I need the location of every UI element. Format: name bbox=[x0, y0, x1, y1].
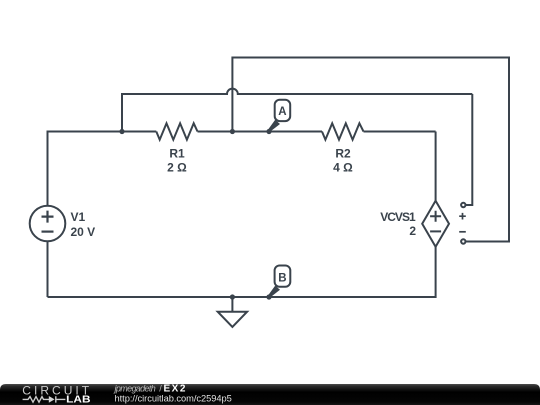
footer bar bbox=[0, 384, 540, 405]
svg-text:http://circuitlab.com/c2594p5: http://circuitlab.com/c2594p5 bbox=[115, 393, 232, 403]
svg-text:R1: R1 bbox=[169, 146, 185, 160]
flag A pointer bbox=[268, 120, 280, 132]
terminal minus sign bbox=[459, 231, 466, 233]
svg-text:LAB: LAB bbox=[66, 394, 90, 405]
flag B box bbox=[275, 266, 291, 287]
wire right vertical (VCVS1 top lead) bbox=[435, 132, 437, 201]
svg-text:R2: R2 bbox=[335, 146, 351, 160]
node junction dot at ground bbox=[230, 294, 235, 299]
node A attachment dot bbox=[266, 129, 271, 134]
wire mid horizontal segment right of R2 bbox=[364, 131, 436, 133]
svg-text:VCVS1: VCVS1 bbox=[380, 210, 416, 224]
voltage source V1 circle bbox=[30, 206, 66, 242]
terminal plus sign bbox=[459, 213, 466, 220]
node B attachment dot bbox=[266, 294, 271, 299]
flag A box bbox=[275, 100, 291, 121]
ground triangle bbox=[218, 312, 247, 327]
logo resistor zigzag and diode glyph bbox=[23, 396, 66, 402]
ground stem wire bbox=[231, 297, 233, 312]
VCVS1 minus sign bbox=[430, 230, 441, 232]
wire right vertical (VCVS1 bottom lead) bbox=[435, 247, 437, 298]
wire left vertical bottom (V1 bottom lead) bbox=[47, 241, 49, 297]
VCVS1 diamond bbox=[422, 201, 449, 247]
terminal circle minus (bottom) bbox=[461, 239, 465, 243]
svg-text:V1: V1 bbox=[71, 210, 86, 224]
svg-text:20 V: 20 V bbox=[71, 225, 96, 239]
VCVS1 plus sign bbox=[430, 211, 441, 222]
svg-text:4 Ω: 4 Ω bbox=[333, 161, 353, 175]
svg-text:jpmegadeth: jpmegadeth bbox=[114, 383, 156, 393]
svg-text:A: A bbox=[278, 106, 286, 118]
node junction dot at x=232 mid wire bbox=[230, 129, 235, 134]
wire mid horizontal segment left of R1 bbox=[47, 131, 157, 133]
wire left vertical top (V1 top lead) bbox=[47, 132, 49, 206]
svg-text:2: 2 bbox=[409, 224, 416, 238]
V1 minus sign bbox=[42, 231, 54, 233]
terminal circle plus (top) bbox=[461, 203, 465, 207]
flag B pointer bbox=[268, 286, 280, 298]
wire node riser at x=122 with horizontal run y=94 and hop over x=232 bbox=[122, 89, 472, 132]
V1 plus sign bbox=[42, 211, 54, 223]
node junction dot at x=122 mid wire bbox=[119, 129, 124, 134]
resistor R2 zigzag bbox=[322, 123, 364, 139]
svg-text:2 Ω: 2 Ω bbox=[167, 161, 187, 175]
svg-text:B: B bbox=[278, 272, 286, 284]
resistor R1 zigzag bbox=[156, 123, 197, 139]
wire from y=94 run down to + terminal bbox=[466, 94, 472, 205]
wire riser at x=232 to top run y=57.5 down right side to - terminal bbox=[232, 58, 509, 242]
wire mid horizontal segment R1 to R2 bbox=[198, 131, 323, 133]
wire bottom horizontal bbox=[48, 296, 436, 298]
logo diode triangle bbox=[49, 396, 55, 403]
